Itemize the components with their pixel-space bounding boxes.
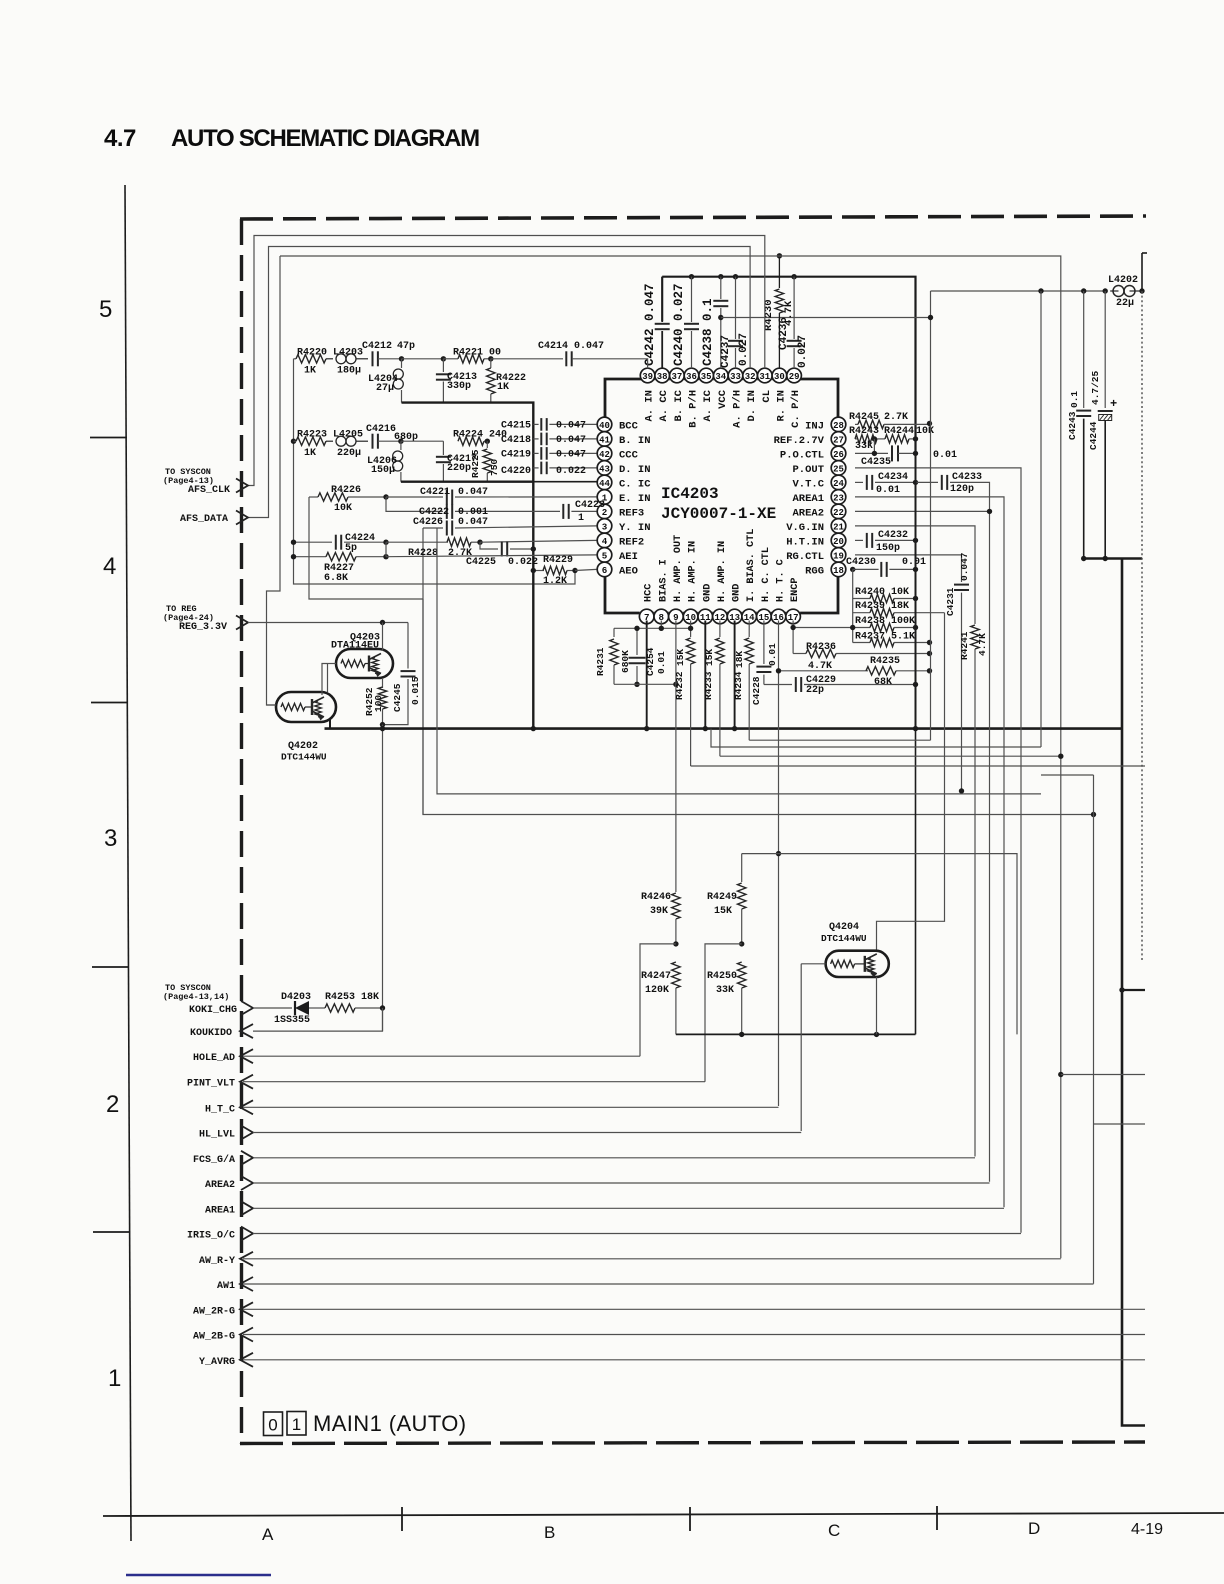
wire R4234 lower — [748, 664, 750, 740]
svg-text:B. IC: B. IC — [673, 389, 685, 421]
junction C4234 right — [913, 480, 918, 485]
svg-text:0.022: 0.022 — [508, 557, 538, 568]
junction y756 at AW_R-Y column — [1058, 754, 1063, 759]
ground bus — [325, 727, 1123, 730]
svg-text:H. T. C: H. T. C — [776, 559, 787, 602]
svg-text:R4245: R4245 — [849, 412, 879, 423]
capacitor C4236 — [793, 277, 795, 339]
bottom tick B/C — [689, 1507, 691, 1531]
svg-text:Q4204: Q4204 — [829, 922, 859, 933]
resistor R4245 — [855, 423, 858, 425]
connector AFS_DATA arrow — [236, 511, 248, 525]
svg-text:GND: GND — [732, 584, 743, 602]
wire row I.BIAS y740 — [749, 739, 930, 741]
wire row1 left vertical — [294, 359, 576, 584]
pin 22 AREA2 — [831, 504, 846, 519]
wire pin25 P.OUT row — [855, 468, 1021, 1233]
svg-text:42: 42 — [599, 450, 610, 460]
resistor R4246 — [672, 893, 680, 919]
resistor R4225 — [486, 441, 488, 448]
svg-text:100: 100 — [373, 695, 384, 712]
pin 20 H.T.IN — [831, 533, 846, 548]
pin 17 ENCP — [786, 609, 801, 624]
svg-text:AREA1: AREA1 — [205, 1205, 235, 1216]
svg-text:27: 27 — [833, 435, 844, 445]
wire KOUKIDO net — [253, 1008, 383, 1031]
capacitor C4217 — [442, 441, 444, 455]
svg-text:3: 3 — [104, 825, 117, 852]
svg-text:29: 29 — [789, 372, 800, 382]
junction emitter Q4204 — [874, 1032, 879, 1037]
junction R4252/C4245 — [380, 722, 385, 727]
junction pin16 row — [776, 668, 781, 673]
wire pin7 HCC to bus — [646, 621, 648, 729]
wire REG_3.3V — [248, 622, 408, 624]
svg-text:680K: 680K — [620, 650, 631, 673]
svg-text:C4216: C4216 — [366, 424, 396, 435]
resistor R4252 — [378, 687, 386, 709]
svg-text:39K: 39K — [650, 906, 668, 917]
svg-text:44: 44 — [599, 479, 610, 489]
capacitor C4244 electrolytic — [1104, 291, 1106, 408]
svg-text:150μ: 150μ — [371, 465, 395, 476]
capacitor C4235 — [891, 445, 893, 461]
svg-text:2: 2 — [106, 1091, 119, 1118]
svg-text:19: 19 — [833, 551, 844, 561]
junction R4243/R4244 — [872, 436, 877, 441]
svg-text:RGG: RGG — [805, 565, 824, 577]
wire Q4202 base — [267, 704, 277, 706]
capacitor C4243 — [1083, 291, 1085, 408]
svg-text:P.OUT: P.OUT — [792, 464, 824, 476]
svg-text:68K: 68K — [874, 677, 892, 688]
svg-text:Y. IN: Y. IN — [619, 522, 651, 534]
svg-text:REF3: REF3 — [619, 507, 644, 519]
wire row1 — [402, 358, 444, 360]
capacitor C4237 — [735, 277, 737, 339]
pin 25 P.OUT — [831, 461, 846, 476]
resistor R4221 — [443, 358, 458, 360]
dashed border top — [240, 216, 1146, 219]
row2 ground bus — [401, 481, 533, 483]
junction pin9 col — [673, 682, 678, 687]
junction — [872, 451, 877, 456]
wire pin18 to rail — [853, 568, 855, 570]
bottom ruler line — [103, 1513, 1224, 1516]
connector H_T_C arrow — [240, 1100, 253, 1114]
svg-text:21: 21 — [833, 522, 844, 532]
junction C4231 bottom — [959, 788, 964, 793]
resistor R4253 — [325, 1004, 355, 1012]
svg-text:R4253 18K: R4253 18K — [325, 992, 379, 1003]
svg-text:10K: 10K — [334, 503, 352, 514]
svg-text:0.01: 0.01 — [656, 651, 667, 674]
svg-text:KOKI_CHG: KOKI_CHG — [189, 1005, 237, 1016]
svg-text:AEI: AEI — [619, 551, 638, 563]
svg-text:15K: 15K — [704, 649, 715, 666]
wire frame3 left leg — [267, 256, 281, 705]
svg-text:R4233: R4233 — [703, 671, 714, 700]
svg-text:120p: 120p — [950, 484, 974, 495]
wire row1 to C4214 — [491, 358, 563, 360]
wire pin9 column — [675, 621, 677, 893]
capacitor C4240 — [691, 277, 693, 322]
wire Q4202 emitter — [329, 719, 331, 729]
svg-text:AW_2B-G: AW_2B-G — [193, 1332, 235, 1343]
svg-text:ENCP: ENCP — [790, 578, 801, 602]
connector AFS_CLK arrow — [236, 479, 248, 493]
ruler tick 4/3 — [91, 702, 128, 704]
svg-text:AFS_CLK: AFS_CLK — [188, 485, 230, 496]
pin 43 D. IN — [597, 461, 612, 476]
svg-text:R4246: R4246 — [641, 892, 671, 903]
svg-text:AEO: AEO — [619, 565, 638, 577]
svg-text:C4214 0.047: C4214 0.047 — [538, 341, 604, 352]
capacitor C4213 — [442, 359, 444, 372]
wire KOKI_CHG — [253, 1007, 292, 1009]
svg-text:4-19: 4-19 — [1131, 1521, 1163, 1538]
wire pin23 AREA1 row — [855, 497, 1004, 1207]
svg-text:20: 20 — [833, 537, 844, 547]
junction R4225 — [485, 439, 490, 444]
svg-text:Q4202: Q4202 — [288, 741, 318, 752]
svg-text:H.T.IN: H.T.IN — [786, 536, 824, 548]
junction — [689, 274, 694, 279]
wire pin22 AREA2 row — [855, 510, 990, 512]
pin 28 INJ — [831, 417, 846, 432]
svg-text:R4220: R4220 — [297, 348, 327, 359]
resistor R4243 — [855, 438, 858, 440]
svg-text:BIAS. I: BIAS. I — [658, 559, 669, 602]
wire to pin4 — [480, 540, 597, 542]
svg-text:4: 4 — [103, 553, 116, 580]
pin 31 CL — [758, 368, 773, 383]
svg-text:C4243: C4243 — [1067, 411, 1078, 440]
svg-text:REF.2.7V: REF.2.7V — [774, 435, 825, 447]
svg-text:R4249: R4249 — [707, 892, 737, 903]
svg-text:REG_3.3V: REG_3.3V — [179, 622, 227, 633]
wire R4228 link — [385, 542, 387, 557]
svg-text:CL: CL — [761, 390, 773, 403]
svg-text:C4226: C4226 — [413, 517, 443, 528]
capacitor C4245 — [407, 623, 409, 669]
svg-text:IC4203: IC4203 — [661, 485, 719, 503]
junction L4204 — [399, 356, 404, 361]
wire Q4204 emitter — [876, 977, 878, 1034]
wire pin21 V.G.IN row — [855, 526, 975, 624]
wire R4241 to FCS column — [974, 649, 976, 1157]
sheet name box 1 — [287, 1412, 306, 1436]
svg-text:43: 43 — [599, 464, 610, 474]
wire row y791 — [437, 528, 1041, 794]
junction L4206 — [398, 439, 403, 444]
capacitor C4230 — [880, 562, 882, 577]
junction VCC bus — [913, 726, 918, 731]
svg-text:0.047: 0.047 — [458, 517, 488, 528]
junction R4235 right — [927, 668, 932, 673]
capacitor C4254 — [636, 628, 638, 655]
pin 19 RG.CTL — [831, 548, 846, 563]
svg-text:120K: 120K — [645, 985, 669, 996]
svg-text:36: 36 — [686, 372, 697, 382]
junction R4229 — [531, 568, 536, 573]
svg-text:A. P/H: A. P/H — [732, 390, 744, 428]
resistor R4247 — [672, 962, 680, 988]
resistor R4233 on pin12 — [719, 621, 721, 638]
resistor R4229 — [533, 570, 544, 572]
svg-text:RG.CTL: RG.CTL — [786, 551, 824, 563]
svg-text:5: 5 — [602, 550, 608, 561]
wire VCC column lower — [915, 453, 917, 729]
capacitor C4220 — [533, 467, 538, 469]
pin 41 B. IN — [597, 432, 612, 447]
svg-text:HL_LVL: HL_LVL — [199, 1130, 235, 1141]
resistor R4250 — [738, 962, 746, 988]
resistor R4222 — [490, 359, 492, 368]
pin 37 B. IC — [670, 368, 685, 383]
svg-text:32: 32 — [745, 372, 756, 382]
pin 4 REF2 — [597, 533, 612, 548]
resistor R4223 — [294, 440, 297, 442]
connector Y_AVRG arrow — [240, 1353, 253, 1367]
resistor R4234 on pin14 — [748, 621, 750, 638]
wire R4249 lower — [741, 909, 743, 944]
connector HL_LVL arrow — [241, 1126, 253, 1140]
svg-text:AUTO SCHEMATIC DIAGRAM: AUTO SCHEMATIC DIAGRAM — [171, 125, 479, 152]
svg-text:C4219: C4219 — [501, 449, 531, 460]
resistor R4230 — [778, 256, 780, 288]
svg-text:C4245: C4245 — [392, 683, 403, 712]
svg-text:3: 3 — [602, 521, 608, 532]
svg-text:R4240 10K: R4240 10K — [855, 587, 909, 598]
svg-text:0.047: 0.047 — [556, 435, 586, 446]
wire R4247 lower — [675, 988, 677, 1034]
row y1034 rail — [676, 1033, 916, 1035]
svg-text:R4224 240: R4224 240 — [453, 430, 507, 441]
wire R4246 lower — [675, 919, 677, 944]
svg-text:R4244: R4244 — [884, 426, 914, 437]
sheet name box 0 — [264, 1412, 283, 1436]
op-amp U IC4203 body — [605, 379, 648, 417]
pin 7 HCC — [639, 609, 654, 624]
pin 30 R. IN — [772, 368, 787, 383]
resistor R4220 — [294, 358, 297, 360]
svg-text:R4234: R4234 — [733, 671, 744, 700]
junction R4226 right — [383, 494, 388, 499]
wire ENCP to ladder rail — [793, 627, 853, 629]
svg-text:C: C — [828, 1521, 840, 1540]
dashed border left — [240, 219, 243, 1444]
resistor R4228 — [386, 541, 448, 543]
capacitor C4229 — [795, 677, 797, 692]
resistor R4235 — [866, 667, 896, 675]
junction C4229 right — [913, 682, 918, 687]
junction R4236 right — [927, 651, 932, 656]
svg-text:0.047: 0.047 — [556, 420, 586, 431]
svg-text:AW1: AW1 — [217, 1281, 235, 1292]
wire R4250 lower — [741, 988, 743, 1034]
svg-text:R4228: R4228 — [408, 548, 438, 559]
pin 6 AEO — [597, 562, 612, 577]
svg-text:AREA2: AREA2 — [792, 507, 824, 519]
wire bias rail bottom — [614, 683, 676, 685]
junction bus R4252 — [380, 726, 385, 731]
svg-text:R4237 5.1K: R4237 5.1K — [855, 632, 915, 643]
inductor L4206 — [400, 441, 402, 450]
capacitor C4214 — [565, 351, 567, 366]
svg-text:B: B — [544, 1523, 555, 1542]
svg-text:C. IC: C. IC — [619, 478, 651, 490]
pin 18 RGG — [831, 562, 846, 577]
svg-text:MAIN1 (AUTO): MAIN1 (AUTO) — [313, 1411, 467, 1436]
svg-text:E. IN: E. IN — [619, 493, 651, 505]
pin 3 Y. IN — [597, 519, 612, 534]
wire pin17 ENCP leg — [792, 621, 794, 654]
junction C4213 — [441, 356, 446, 361]
svg-text:R4250: R4250 — [707, 971, 737, 982]
resistor R4224 — [458, 437, 484, 445]
resistor R4244 — [885, 435, 909, 443]
capacitor C4231 — [961, 579, 963, 582]
svg-text:R4236: R4236 — [806, 642, 836, 653]
svg-text:0.015: 0.015 — [410, 676, 421, 705]
svg-text:BCC: BCC — [619, 420, 639, 432]
junction ground stub off-page — [1119, 987, 1124, 992]
pin 5 AEI — [597, 548, 612, 563]
diode D4203 1SS355 — [294, 1001, 296, 1015]
svg-text:31: 31 — [759, 372, 770, 382]
svg-text:H. AMP. IN: H. AMP. IN — [717, 541, 728, 602]
junction row2 left — [291, 439, 296, 444]
capacitor C4242 — [661, 277, 663, 321]
pin 29 C. P/H — [787, 368, 802, 383]
svg-text:(Page4-13,14): (Page4-13,14) — [163, 992, 229, 1002]
ground rail y559 — [1084, 557, 1142, 559]
left ruler line — [125, 185, 131, 1541]
svg-text:27μ: 27μ — [376, 383, 394, 394]
svg-text:25: 25 — [833, 464, 844, 474]
svg-text:PINT_VLT: PINT_VLT — [187, 1079, 235, 1090]
svg-text:R. IN: R. IN — [775, 390, 787, 422]
svg-text:AFS_DATA: AFS_DATA — [180, 514, 228, 525]
capacitor C4238 — [720, 277, 722, 299]
pin 10 H. AMP. IN — [683, 609, 698, 624]
svg-text:6: 6 — [602, 565, 608, 576]
junction R4249/R4250 — [739, 941, 744, 946]
svg-text:0.047: 0.047 — [458, 487, 488, 498]
svg-text:HOLE_AD: HOLE_AD — [193, 1053, 235, 1064]
wire C4229 row — [764, 684, 792, 686]
wire pin26 row — [855, 452, 888, 454]
svg-text:R4226: R4226 — [331, 485, 361, 496]
wire C4214 to pin39 — [572, 359, 648, 369]
capacitor C4223 — [562, 504, 564, 519]
svg-text:C4233: C4233 — [952, 472, 982, 483]
wire Q4204 base column HL_LVL — [800, 964, 802, 1131]
svg-text:33k: 33k — [855, 440, 873, 452]
wire AEI to pin5 — [386, 555, 597, 557]
wire row y747 — [711, 729, 1041, 747]
svg-text:A. IN: A. IN — [644, 390, 656, 422]
connector AW_2B-G arrow — [240, 1328, 253, 1342]
svg-text:47p: 47p — [397, 341, 415, 352]
svg-text:R4225: R4225 — [470, 449, 481, 478]
connector AREA2 arrow — [241, 1176, 253, 1190]
wire Q4204 base — [801, 963, 825, 965]
capacitor C4215 — [533, 423, 538, 425]
svg-text:0.1: 0.1 — [1069, 391, 1080, 408]
svg-text:L4202: L4202 — [1108, 275, 1138, 286]
row1 ground bus — [402, 403, 534, 729]
svg-text:0.047: 0.047 — [556, 449, 586, 460]
svg-text:KOUKIDO: KOUKIDO — [190, 1028, 232, 1039]
inductor L4203 — [336, 354, 346, 364]
svg-text:R4247: R4247 — [641, 971, 671, 982]
capacitor C4218 — [533, 438, 538, 440]
pin 42 CCC — [597, 446, 612, 461]
capacitor C4212 — [372, 351, 374, 366]
svg-text:2.7K: 2.7K — [884, 412, 908, 423]
svg-text:INJ: INJ — [805, 420, 824, 432]
svg-text:HCC: HCC — [644, 584, 655, 602]
capacitor C4221 — [386, 496, 443, 498]
connector AW1 arrow — [240, 1277, 253, 1291]
svg-text:AW_R-Y: AW_R-Y — [199, 1256, 235, 1267]
svg-text:1K: 1K — [304, 448, 316, 459]
svg-text:DTC144WU: DTC144WU — [281, 752, 327, 763]
junction Q4203 emitter — [380, 620, 385, 625]
svg-text:DTC144WU: DTC144WU — [821, 933, 867, 944]
svg-text:C4240 0.027: C4240 0.027 — [672, 283, 686, 366]
pin 26 P.O.CTL — [831, 446, 846, 461]
connector HOLE_AD arrow — [240, 1049, 253, 1063]
wire Q4202 collector — [322, 664, 328, 696]
svg-text:0.047: 0.047 — [959, 552, 970, 581]
svg-text:R4221 00: R4221 00 — [453, 348, 501, 359]
svg-text:4: 4 — [602, 536, 608, 547]
pin 2 REF3 — [597, 504, 612, 519]
resistor R4227 — [294, 556, 327, 558]
svg-text:0.027: 0.027 — [738, 333, 750, 366]
wire C4238 branch — [721, 317, 931, 319]
svg-text:C4218: C4218 — [501, 435, 531, 446]
junction — [733, 274, 738, 279]
resistor R4231 — [613, 628, 615, 637]
wire REF to P.O.CTL — [873, 439, 875, 454]
svg-text:1K: 1K — [497, 382, 509, 393]
pin 15 H. C. CTL — [757, 609, 772, 624]
svg-text:4.7K: 4.7K — [977, 633, 988, 656]
svg-text:41: 41 — [599, 435, 610, 445]
svg-text:28: 28 — [833, 421, 844, 431]
pin 24 V.T.C — [831, 475, 846, 490]
svg-text:30: 30 — [774, 372, 785, 382]
svg-text:AREA1: AREA1 — [792, 493, 824, 505]
svg-text:R4232: R4232 — [674, 671, 685, 700]
capacitor C4232 — [855, 539, 863, 541]
svg-text:A: A — [262, 1525, 274, 1544]
capacitor C4222 — [446, 504, 448, 519]
svg-text:0: 0 — [268, 1416, 277, 1435]
svg-text:750: 750 — [489, 459, 500, 476]
junction — [644, 726, 649, 731]
wire VCC column below bus — [915, 729, 917, 1035]
svg-text:C4220: C4220 — [501, 466, 531, 477]
junction R4246/R4247 — [673, 941, 678, 946]
svg-text:1SS355: 1SS355 — [274, 1015, 310, 1026]
junction R4237 right — [927, 640, 932, 645]
svg-text:R4229: R4229 — [543, 555, 573, 566]
